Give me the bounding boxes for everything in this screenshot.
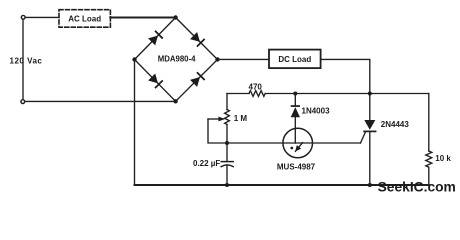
MUS gate dot	[290, 147, 293, 150]
svg-text:SeekIC.com: SeekIC.com	[378, 180, 456, 195]
svg-text:MUS-4987: MUS-4987	[277, 162, 316, 171]
wire bridge right vertex to DC Load	[218, 58, 270, 60]
junction capacitor bottom	[225, 183, 229, 187]
junction SCR anode rail	[368, 92, 372, 96]
pot wiper arrow	[208, 118, 219, 120]
wire 470 to right rail corner	[265, 93, 429, 95]
potentiometer 1M body	[225, 110, 230, 125]
AC Load box	[59, 10, 110, 28]
wire 10k to bottom rail	[428, 167, 430, 185]
svg-text:10 k: 10 k	[435, 154, 451, 163]
diode D4 bridge bottom-right	[190, 72, 206, 88]
SCR 2N4443 body	[364, 120, 375, 130]
wire T1 to AC Load	[25, 16, 59, 18]
resistor 10k	[426, 151, 432, 167]
wire capacitor to bottom rail	[226, 166, 228, 185]
pot wiper arrowhead	[218, 117, 225, 122]
wire SCR anode	[369, 94, 371, 121]
junction SCR cathode rail	[368, 183, 372, 187]
bridge rectifier MDA980-4 edges	[135, 18, 218, 102]
capacitor 0.22uF top plate	[221, 161, 233, 163]
diode D2 bridge top-right	[190, 32, 206, 48]
junction bridge left	[132, 57, 136, 61]
MUS-4987 circle	[283, 128, 313, 158]
SCR 2N4443 cathode bar	[364, 130, 376, 132]
wire bridge left vertex down to bottom rail	[134, 60, 136, 186]
junction pot bottom	[225, 141, 229, 145]
bottom rail	[135, 184, 429, 186]
junction bridge bottom	[173, 99, 177, 103]
svg-text:1N4003: 1N4003	[302, 107, 331, 116]
capacitor 0.22uF bottom plate	[221, 165, 233, 167]
svg-text:MDA980-4: MDA980-4	[158, 54, 196, 63]
wire SCR cathode to bottom rail	[369, 131, 371, 185]
wire right rail down to 10k	[428, 94, 430, 152]
svg-text:AC Load: AC Load	[68, 15, 101, 24]
terminal T2 (120 Vac bottom)	[21, 100, 25, 104]
terminal T1 (120 Vac top)	[21, 15, 25, 19]
wire T2 to bridge bottom vertex	[25, 100, 176, 102]
diode D1 bridge top-left	[148, 30, 164, 46]
wire junction down to capacitor	[226, 143, 228, 161]
svg-text:470: 470	[249, 82, 263, 91]
wire pot to junction	[226, 125, 228, 144]
junction 1N4003 rail	[293, 92, 297, 96]
MUS internal arrowhead	[295, 145, 301, 151]
svg-text:2N4443: 2N4443	[381, 120, 410, 129]
svg-text:0.22 µF: 0.22 µF	[193, 159, 220, 168]
junction bridge right	[215, 57, 219, 61]
svg-text:1 M: 1 M	[234, 114, 248, 123]
svg-text:DC Load: DC Load	[278, 55, 311, 64]
svg-text:120 Vac: 120 Vac	[10, 57, 43, 66]
wire 120Vac vertical between terminals	[22, 19, 24, 99]
wire 1N4003 anode to MUS circle	[294, 117, 296, 143]
DC Load box	[269, 50, 321, 69]
wire DC Load to SCR anode drop	[321, 59, 370, 93]
wire rail corner down to pot	[226, 94, 228, 110]
wire junction to MUS circle / gate line	[227, 142, 361, 144]
junction bridge top	[173, 15, 177, 19]
wire AC Load to bridge top vertex	[110, 17, 175, 19]
MUS-4987 internal arrow	[295, 143, 302, 152]
wire SCR gate diagonal	[361, 133, 366, 144]
diode D3 bridge bottom-left	[148, 73, 164, 89]
resistor 470	[249, 91, 265, 97]
wire 1N4003 junction down to diode	[294, 94, 296, 106]
wire rail corner to 470	[227, 93, 249, 95]
pot wiper loop	[208, 119, 227, 143]
diode 1N4003 body	[291, 107, 300, 117]
